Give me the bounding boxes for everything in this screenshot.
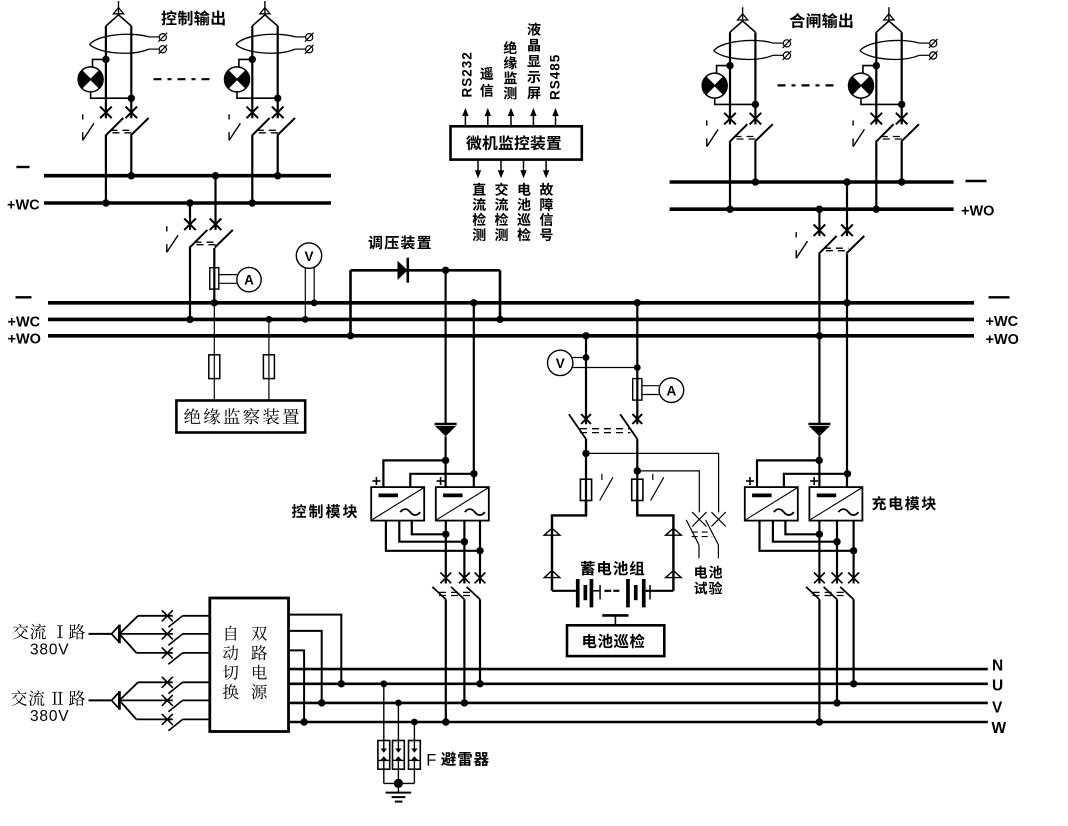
voltmeter V2 [548, 350, 573, 375]
wire: regulator left drop to +WO [349, 270, 352, 336]
contact X charge phase 2 [832, 573, 843, 584]
label 交流 (II) [11, 690, 44, 706]
junction: battery test tap left [582, 450, 589, 457]
bus: top-right negative bus (-) [670, 180, 954, 184]
contact X battery test 2 [711, 512, 725, 526]
wire: branch A right conductor [130, 26, 132, 118]
wire: battery left line upper [585, 336, 587, 425]
label 路 (II) [69, 690, 85, 706]
label 遥信 [480, 67, 493, 97]
wire: transfer out phase 2 [289, 631, 322, 703]
supply arrow AC-II [112, 691, 120, 710]
breaker branch B operating handle [229, 114, 240, 140]
wire: control left module phase c [412, 521, 446, 535]
wire: branch C right pole to bus [754, 142, 756, 182]
battery tap bar [602, 615, 628, 625]
wire: AC-I incoming [89, 633, 112, 635]
junction: branch B left pole on lower bus [249, 199, 256, 206]
plug connector left lower [544, 571, 560, 578]
bus: W [289, 721, 988, 724]
wire: branch D top stub [888, 7, 890, 21]
wire: battery string left [552, 590, 576, 592]
wire: charge return mid [846, 254, 848, 487]
wire: AC-II phase 2 out [183, 699, 210, 701]
cable loop branch C [714, 40, 773, 59]
label 试验 (test) [694, 581, 722, 594]
junction: branch D left pole on lower bus [873, 206, 880, 213]
wire: control phase 2 to bus [463, 599, 465, 703]
svg-text:380V: 380V [30, 708, 69, 725]
indicator lamp branch D [849, 73, 874, 98]
label dash: minus polarity top-right [966, 180, 987, 182]
contact X battery right [632, 414, 642, 424]
wire: branch D right pole to bus [901, 142, 903, 182]
wire: branch B lamp feed [239, 59, 252, 67]
junction: charge return on - mid bus [843, 299, 850, 306]
wire: branch A left diverge [106, 15, 119, 26]
wire: AC-I phase 2 in [119, 633, 172, 635]
arrester 1 body [378, 741, 390, 770]
label 交流检测 [495, 183, 508, 242]
wire: charge phase line 2 [836, 521, 838, 584]
wire: battery string middle segment [593, 590, 599, 592]
label 电池巡检 [517, 183, 531, 241]
wire: branch D left conductor [875, 32, 877, 124]
wire: transfer out phase 1 [289, 615, 342, 684]
wire: AC-II phase 2 in [119, 699, 172, 701]
junction: charge feed on +WO top bus [816, 206, 823, 213]
wire: insulation fuse 1 drop [213, 303, 215, 401]
terminal socket branch B-1 [305, 33, 314, 42]
junction: V2 on battery left line [583, 354, 590, 361]
breaker branch C blade left [729, 124, 747, 142]
junction: transfer phase 1 on U [338, 680, 345, 687]
wire: branch D terminal lead 2 [919, 54, 929, 56]
wire: charge phase 1 to bus [818, 599, 820, 722]
junction: charge return on - top bus [843, 178, 850, 185]
terminal socket branch A-2 [159, 45, 168, 54]
wire: branch A left pole to bus [105, 136, 107, 203]
auto transfer switch box [210, 598, 289, 732]
cable loop branch A [90, 34, 149, 53]
label 绝缘监测 [504, 41, 517, 100]
junction: arrester 3 on bus [411, 719, 418, 726]
wire: AC-II phase 3 in [136, 718, 172, 720]
wire: control module feed with diode upper [445, 270, 447, 424]
junction: insulation tap on +WC [266, 316, 273, 323]
bus: middle +WO bus [48, 334, 974, 338]
battery patrol box 电池巡检 [567, 625, 664, 656]
wire: branch C lamp feed [717, 66, 730, 74]
wire: branch A right diverge [119, 15, 132, 26]
breaker charge blade 3 [840, 587, 853, 600]
wire: AC-II incoming [89, 699, 112, 701]
wire: charge feed upper [818, 209, 820, 236]
contact X AC-I phase 1 [162, 610, 173, 621]
wire: arrester common [384, 782, 415, 784]
label 电池 (test) [695, 566, 722, 579]
breaker charge blade 2 [824, 587, 837, 600]
wire: branch C top stub [742, 7, 744, 21]
wire: branch B right conductor [277, 26, 279, 118]
bus: N [289, 668, 988, 671]
wire: V2 lead 1 [573, 357, 586, 359]
breaker charge linkage [813, 592, 846, 595]
label Ⅰ [57, 625, 63, 638]
contact X tie left [184, 219, 196, 231]
knife blade AC-II phase 2 [168, 700, 182, 711]
junction: branch D lamp tap [873, 62, 880, 69]
test switch linkage [692, 532, 713, 537]
wire: arrester 3 top lead [413, 722, 415, 749]
breaker branch D blade left [876, 124, 894, 142]
wire: control phase 3 to bus [479, 599, 481, 683]
contact X AC-II phase 2 [162, 695, 173, 706]
wire: battery left line lower [585, 439, 587, 515]
wire: arrester 2 top lead [397, 703, 399, 749]
contact X AC-I phase 3 [162, 647, 173, 658]
wire: branch B right diverge [265, 15, 278, 26]
battery string dashes [604, 590, 619, 592]
label 自动切换 [223, 626, 239, 700]
breaker branch C blade right [755, 124, 773, 142]
junction: branch B lamp return tap [274, 95, 281, 102]
wire: branch A top stub [118, 1, 120, 15]
label dash: minus polarity mid-left [16, 296, 32, 298]
wire: charge left module phase b [773, 521, 837, 542]
breaker branch A blade left [105, 118, 123, 136]
wire: AC-I fan bottom [119, 634, 136, 653]
ammeter A1 [237, 267, 261, 291]
junction: branch B lamp tap [249, 56, 256, 63]
junction: branch C right pole on upper bus [752, 178, 759, 185]
contact X branch B right pole [272, 107, 284, 119]
wire: test stub 1 [698, 545, 700, 558]
wire: AC-I phase 3 in [136, 652, 172, 654]
wire: V2 lead 2 [572, 367, 637, 369]
indicator lamp branch C [702, 73, 727, 98]
breaker control linkage [439, 592, 472, 595]
junction: arrester 2 on bus [395, 700, 402, 707]
wire: branch C right conductor [754, 32, 756, 124]
breaker battery blade left [569, 414, 586, 439]
wire: branch C right diverge [743, 21, 756, 32]
wire: branch A terminal lead 1 [149, 36, 159, 38]
test switch blade 1 [686, 520, 699, 545]
module box control module 2 [436, 487, 489, 520]
ammeter A2 [659, 378, 684, 403]
breaker battery blade right [620, 414, 637, 439]
arrow up monitor out 2 [485, 108, 491, 126]
breaker branch C operating handle [707, 120, 718, 146]
junction: control phase 2 on bus [461, 699, 468, 706]
knife blade AC-II phase 1 [168, 682, 182, 693]
plug connector right lower [666, 571, 682, 578]
contact X branch D right pole [896, 113, 908, 125]
breaker bus-tie blade left [189, 230, 207, 248]
svg-text:N: N [992, 658, 1003, 675]
svg-text:RS485: RS485 [548, 54, 563, 100]
plus sign control left module [372, 477, 380, 485]
svg-text:+WC: +WC [7, 198, 40, 214]
svg-text:+WC: +WC [8, 315, 41, 331]
fuse F2 insulation [263, 355, 274, 379]
bus: U [289, 682, 988, 685]
wire: branch D right diverge [889, 21, 902, 32]
wire: V1 lead to - [313, 267, 315, 303]
breaker charge-breaker blade right [846, 236, 864, 254]
junction: control phase 1 on bus [442, 718, 449, 725]
ammeter A1 leads [219, 275, 237, 284]
wire: insulation fuse 2 drop [268, 319, 270, 400]
contact X control phase 3 [475, 573, 486, 584]
wire: arrester 2 bottom lead [397, 760, 399, 783]
wire: tie right pole lower [213, 248, 215, 303]
svg-text:V: V [556, 356, 565, 371]
label 避雷器 [441, 751, 489, 766]
junction: branch A lamp return tap [128, 95, 135, 102]
junction: control minus tap on - bus [470, 299, 477, 306]
svg-text:V: V [992, 699, 1003, 716]
arrow up monitor out 5 [552, 108, 558, 126]
arrester 2 body [393, 741, 405, 770]
wire: battery loop left [552, 501, 586, 591]
wire: branch B terminal lead 1 [295, 36, 305, 38]
junction: transfer phase 3 on W [300, 718, 307, 725]
breaker bus-tie blade right [215, 230, 233, 248]
wire: battery test lead 2 [637, 471, 699, 513]
wire: battery test lead 1 [586, 453, 719, 512]
junction: branch A left pole on lower bus [102, 199, 109, 206]
wire: branch C lamp return [715, 98, 756, 104]
wire: charge feed lower [818, 436, 820, 487]
junction: arrester 1 on bus [380, 680, 387, 687]
label 直流检测 [473, 183, 486, 242]
wire: branch C left diverge [730, 21, 743, 32]
label 电池巡检 [583, 634, 644, 649]
breaker branch A blade right [131, 118, 149, 136]
breaker branch A linkage [110, 130, 132, 133]
label 蓄电池组 [581, 561, 644, 576]
junction: branch D right pole on upper bus [898, 178, 905, 185]
battery cells group 2 [626, 579, 651, 607]
label dash: minus polarity mid-right [989, 296, 1010, 298]
junction: control phase b node [461, 538, 468, 545]
label Ⅱ [52, 692, 63, 705]
terminal socket branch D-2 [929, 51, 938, 60]
wire: regulator right drop to +WC [499, 270, 502, 319]
diode D3 charge feed [808, 424, 830, 436]
bus: top-right +WO closing bus [670, 207, 954, 211]
breaker branch D operating handle [853, 120, 864, 146]
wire: branch B lamp return [237, 92, 278, 98]
junction: branch C lamp tap [726, 62, 733, 69]
wire: battery right line lower [636, 439, 638, 515]
wire: branch D lamp feed [863, 66, 876, 74]
svg-text:A: A [244, 273, 254, 288]
junction: battery left line on +WO bus [582, 332, 589, 339]
terminal socket branch B-2 [305, 45, 314, 54]
wire: branch B left pole to bus [251, 136, 253, 203]
indicator lamp branch B [225, 67, 250, 92]
wire: arrester 1 bottom lead [383, 760, 385, 783]
insulation monitor box [176, 401, 305, 433]
label 合闸输出 [790, 13, 853, 28]
breaker bus-tie operating handle [167, 226, 178, 252]
junction: V1 on +WC bus [302, 316, 309, 323]
svg-text:+WO: +WO [8, 331, 41, 347]
wire: charge phase 3 to bus [852, 599, 854, 683]
junction: tie left pole on +WC top bus [186, 199, 193, 206]
plus sign control right module [437, 477, 445, 485]
wire: branch D left pole to bus [875, 142, 877, 209]
wire: transfer out phase 3 [289, 650, 305, 722]
wire: test stub 2 [717, 545, 719, 558]
module box charge module 2 [809, 487, 862, 520]
bus: middle negative bus (-) [48, 301, 974, 305]
wire: control left module + riser [383, 460, 445, 487]
shunt for ammeter A2 [633, 379, 642, 401]
junction: charge plus node [816, 457, 823, 464]
wire: battery right line upper [636, 303, 638, 425]
plug connector left upper [544, 528, 560, 535]
knife switch mark left fuse [600, 474, 613, 501]
label 路 (I) [69, 624, 85, 640]
svg-text:380V: 380V [30, 642, 69, 659]
breaker branch D blade right [901, 124, 919, 142]
diode D2 control feed [435, 424, 457, 436]
connector arrow branch C [738, 14, 748, 20]
junction: control plus node [442, 457, 449, 464]
terminal socket branch A-1 [159, 33, 168, 42]
contact X battery test 1 [692, 512, 706, 526]
label 双路电源 [251, 626, 267, 699]
shunt for ammeter A1 [210, 268, 219, 289]
contact X branch C right pole [750, 113, 762, 125]
label 控制输出 [161, 10, 224, 25]
wire: charge left module phase c [785, 521, 819, 535]
terminal socket branch C-1 [783, 39, 792, 48]
wire: arrester 1 top lead [383, 684, 385, 749]
svg-text:+WO: +WO [961, 204, 994, 220]
junction: V1 on - bus [311, 299, 318, 306]
breaker battery linkage [580, 429, 631, 433]
junction: branch A right pole on upper bus [128, 172, 135, 179]
wire: regulator top link [351, 269, 501, 272]
monitor unit box 微机监控装置 [451, 126, 582, 159]
junction: branch C left pole on lower bus [726, 206, 733, 213]
junction: control phase a node [476, 547, 483, 554]
connector arrow branch B [260, 8, 270, 14]
wire: branch C left conductor [729, 32, 731, 124]
wire: branch A lamp return [91, 92, 132, 98]
wire: earth lead [397, 783, 399, 792]
wire: control phase line 2 [463, 521, 465, 584]
wire: branch B left conductor [251, 26, 253, 118]
svg-text:V: V [304, 249, 313, 264]
arrow down monitor in 2 [498, 160, 504, 179]
wire: charge return upper [846, 182, 848, 236]
plus sign charge left module [746, 477, 754, 485]
wire: AC-II fan top [119, 682, 138, 700]
junction: regulator on +WC bus [496, 316, 503, 323]
contact X charge left [814, 225, 826, 237]
breaker branch B linkage [257, 130, 279, 133]
contact X branch A left pole [100, 107, 112, 119]
breaker branch B blade right [277, 118, 295, 136]
breaker control blade 1 [432, 587, 445, 600]
fuse battery right [632, 479, 643, 500]
contact X tie right [210, 219, 222, 231]
junction: charge phase a node [850, 547, 857, 554]
wire: AC-II phase 1 out [183, 681, 210, 683]
wire: charge left module second riser [784, 474, 848, 487]
wire: tie right pole upper [214, 176, 216, 230]
fuse F1 insulation [209, 355, 220, 379]
label 微机监控装置 [466, 135, 561, 150]
junction: battery test tap right [634, 467, 641, 474]
wire: branch C terminal lead 2 [773, 54, 783, 56]
contact X battery left [581, 414, 591, 424]
junction: branch B right pole on upper bus [274, 172, 281, 179]
knife blade AC-II phase 3 [168, 719, 182, 730]
module box control module 1 [371, 487, 424, 520]
plus sign charge right module [810, 477, 818, 485]
contact X charge phase 3 [848, 573, 859, 584]
wire: branch D right conductor [901, 32, 903, 124]
junction: charge phase b node [833, 538, 840, 545]
wire: V1 lead to +WC [304, 268, 306, 320]
wire: control left module second riser [410, 474, 474, 487]
breaker charge-breaker blade left [819, 236, 837, 254]
label 控制模块 [292, 504, 357, 518]
fuse battery left [580, 479, 591, 500]
breaker branch A operating handle [83, 114, 94, 140]
cable loop branch D [860, 40, 919, 59]
wire: AC-II phase 3 out [183, 718, 210, 720]
label 调压装置 [369, 235, 431, 249]
wire: AC-I phase 3 out [183, 652, 210, 654]
wire: battery loop right [637, 501, 673, 591]
svg-text:W: W [992, 720, 1007, 737]
wire: AC-I phase 2 out [183, 633, 210, 635]
dash separator closing branches [778, 84, 835, 86]
bus: top-left +WC control bus [44, 201, 331, 205]
wire: tie left pole lower [189, 248, 191, 320]
wire: control phase 1 to bus [445, 599, 447, 722]
wire: AC-II phase 1 in [138, 681, 173, 683]
terminal socket branch C-2 [783, 51, 792, 60]
wire: AC-I phase 1 in [138, 615, 173, 617]
indicator lamp branch A [78, 67, 103, 92]
wire: control phase line 1 [445, 521, 447, 584]
junction: control phase 3 on bus [476, 680, 483, 687]
svg-text:+WO: +WO [986, 332, 1019, 348]
contact X charge right [841, 225, 853, 237]
junction: branch C lamp return tap [752, 101, 759, 108]
wire: branch B left diverge [252, 15, 265, 26]
contact X AC-I phase 2 [162, 628, 173, 639]
wire: charge left module + riser [757, 460, 819, 487]
bus: top-left negative bus (-) [44, 174, 331, 178]
svg-text:F: F [426, 751, 436, 769]
wire: branch A left conductor [105, 26, 107, 118]
contact X AC-II phase 3 [162, 714, 173, 725]
wire: AC-II fan bottom [119, 700, 136, 719]
label 故障信号 [540, 183, 553, 241]
label dash: minus polarity top-left [16, 166, 29, 168]
wire: branch A right pole to bus [130, 136, 132, 176]
